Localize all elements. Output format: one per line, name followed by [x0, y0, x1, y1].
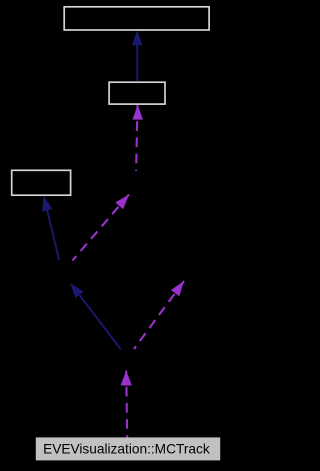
svg-text:EVEVisualization::MCTrack: EVEVisualization::MCTrack — [43, 442, 210, 457]
